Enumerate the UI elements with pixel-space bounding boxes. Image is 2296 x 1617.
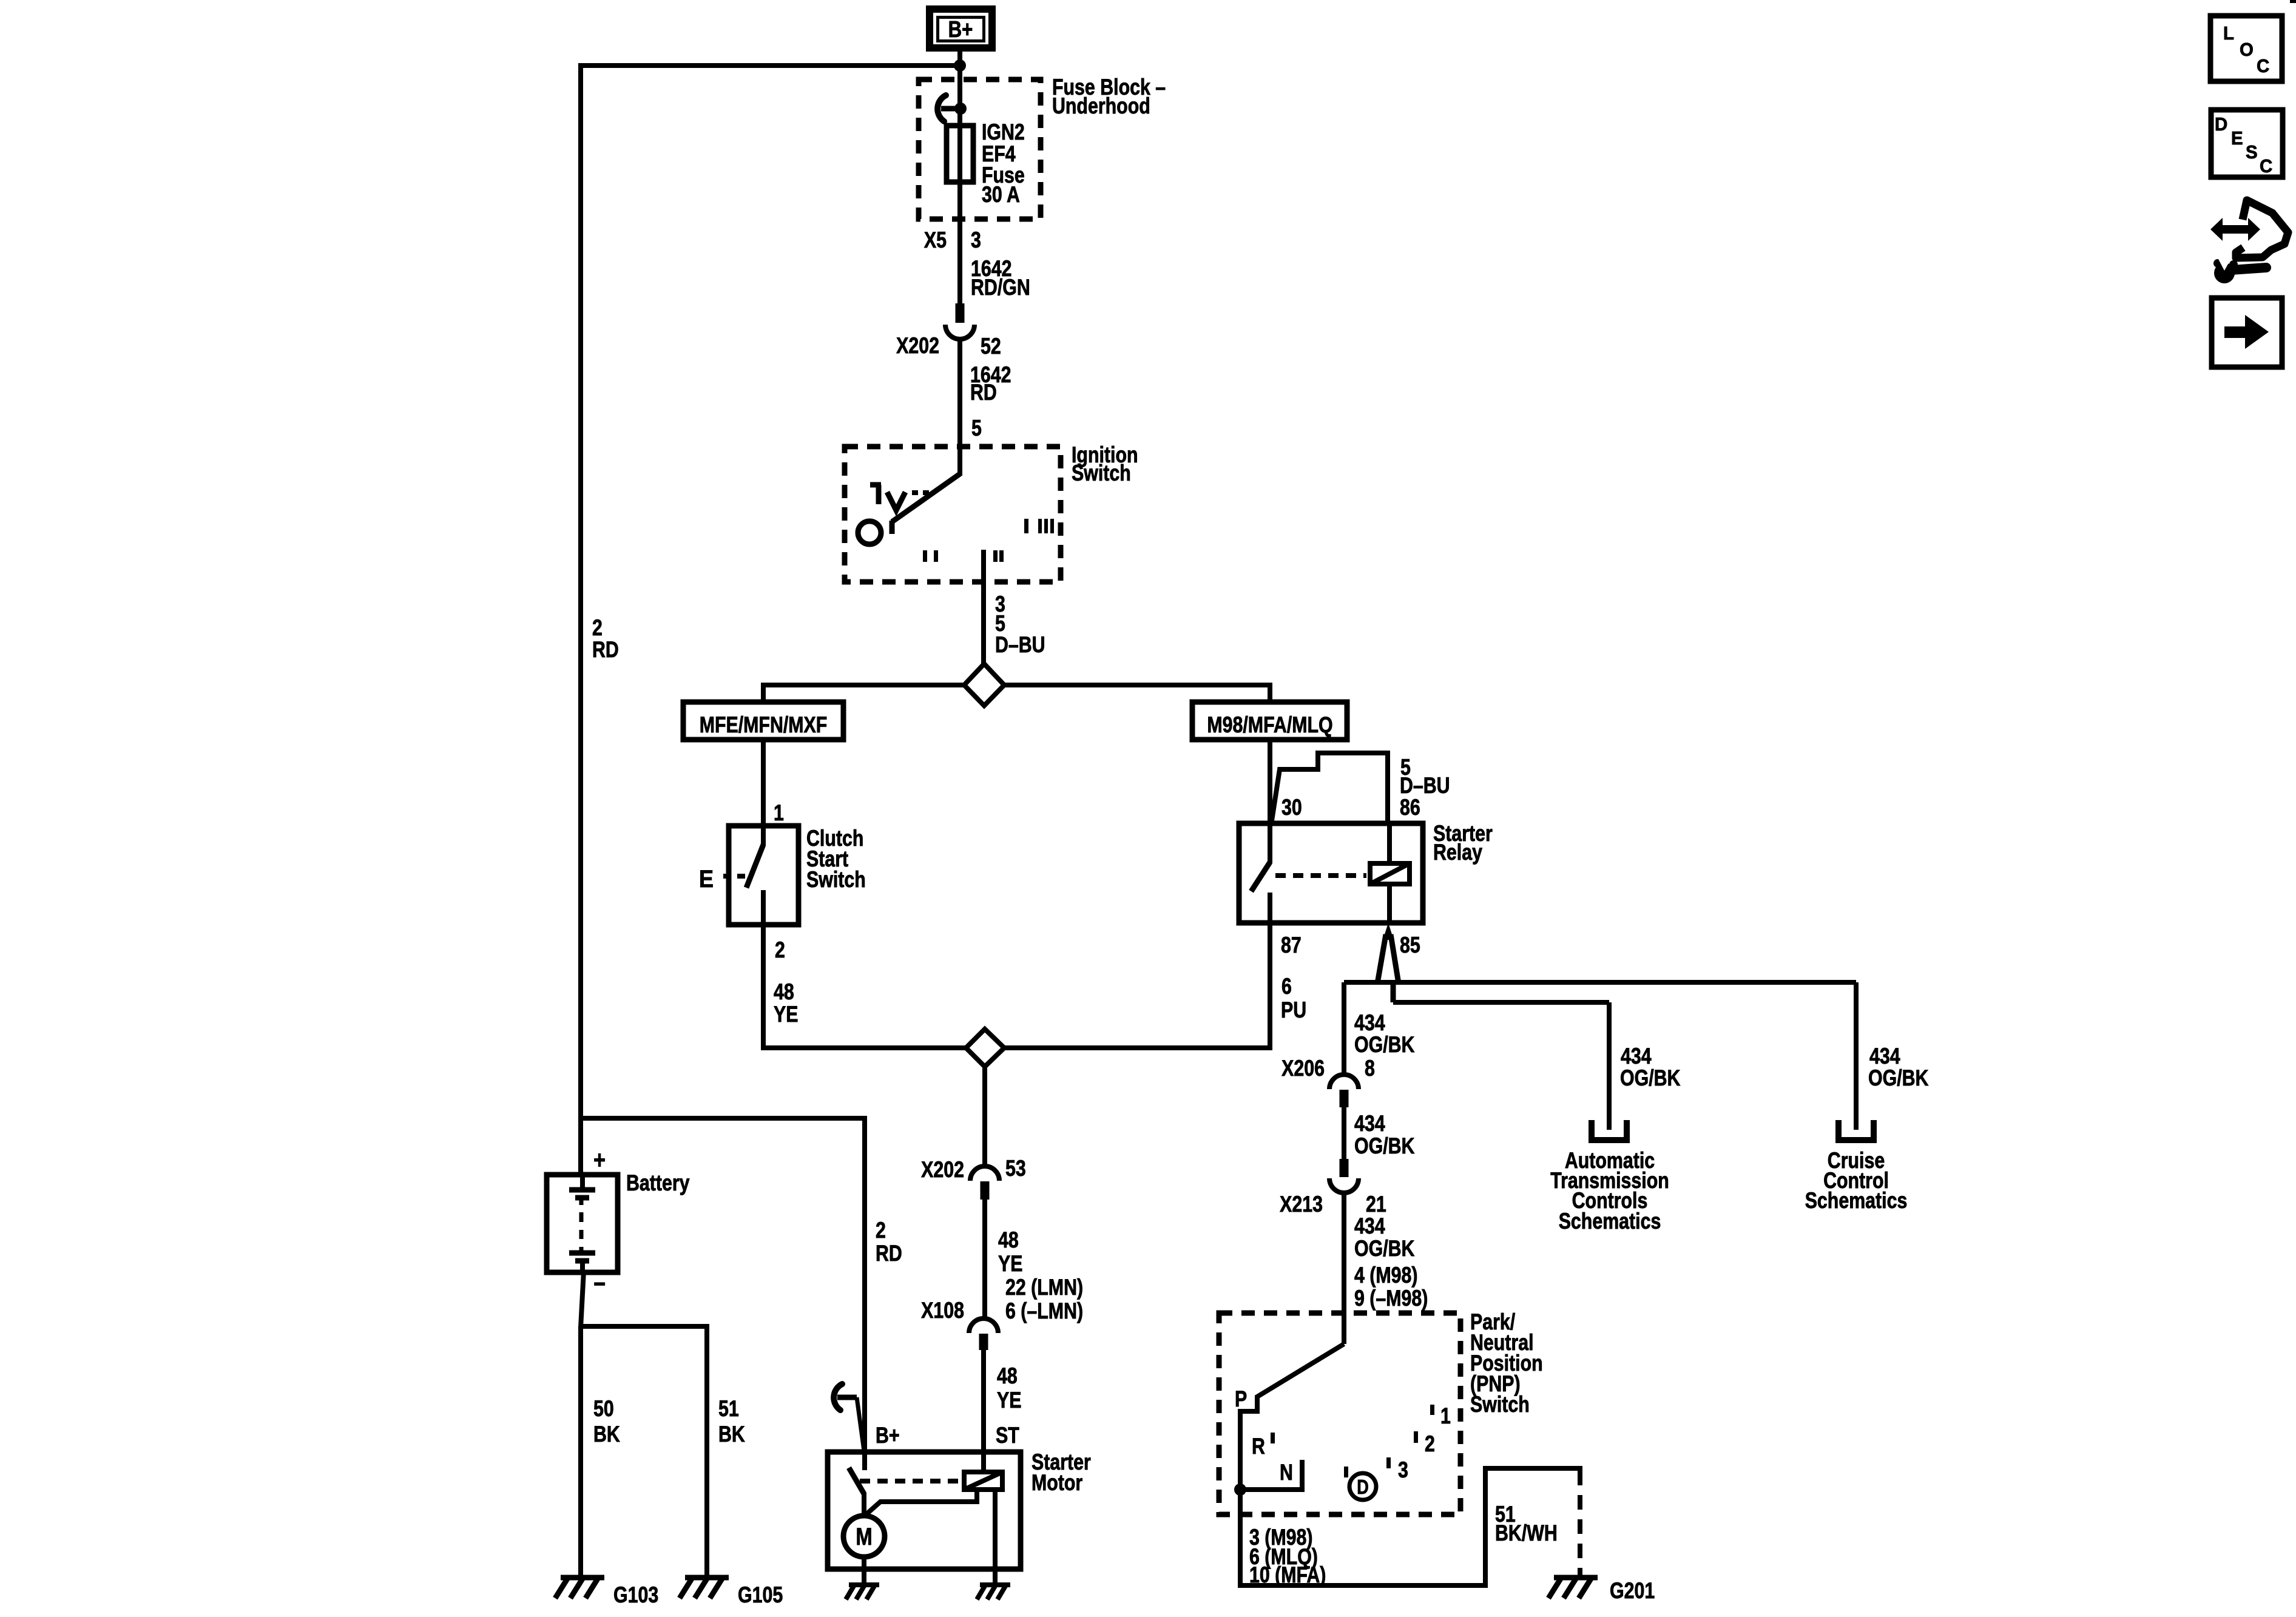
svg-text:M98/MFA/MLQ: M98/MFA/MLQ xyxy=(1207,712,1332,738)
starter solenoid dashed link xyxy=(860,1479,962,1484)
svg-text:9 (–M98): 9 (–M98) xyxy=(1354,1286,1428,1311)
svg-text:BK: BK xyxy=(593,1422,620,1447)
svg-text:4 (M98): 4 (M98) xyxy=(1354,1263,1418,1288)
svg-text:+: + xyxy=(593,1146,606,1175)
label clutch start switch xyxy=(806,826,866,893)
label splice X108 pins xyxy=(1005,1275,1083,1324)
label park neutral position switch xyxy=(1470,1309,1543,1417)
svg-text:S: S xyxy=(2246,142,2258,163)
wire 2 RD battery to starter xyxy=(581,1118,865,1468)
label battery minus xyxy=(593,1270,606,1298)
svg-text:B+: B+ xyxy=(948,17,973,42)
label relay pins 87 85 xyxy=(1281,933,1420,958)
label wire 50 BK xyxy=(593,1396,620,1447)
svg-text:YE: YE xyxy=(774,1002,798,1027)
svg-text:48: 48 xyxy=(774,979,794,1005)
ignition switch position mark II xyxy=(993,550,1004,562)
svg-text:1: 1 xyxy=(1440,1403,1451,1429)
svg-text:48: 48 xyxy=(997,1363,1018,1389)
connector X206 female dome xyxy=(1329,1075,1359,1089)
battery internal plates xyxy=(569,1177,595,1271)
ground G103 xyxy=(555,1578,658,1608)
wire PNP output to G201 xyxy=(1240,1468,1582,1585)
PNP wiper wire xyxy=(1240,1344,1344,1490)
label wire 3 5 D-BU xyxy=(995,592,1045,658)
connector X213 male pin xyxy=(1340,1159,1349,1177)
wire 434 OG/BK down to X206 xyxy=(1342,982,1346,1076)
svg-text:Underhood: Underhood xyxy=(1052,93,1150,119)
svg-text:G105: G105 xyxy=(738,1582,783,1608)
wire diamond to M98 box xyxy=(1004,685,1270,702)
label connector X213 pin 21 xyxy=(1280,1192,1386,1217)
terminal cruise schematics xyxy=(1838,1120,1874,1140)
svg-text:50: 50 xyxy=(593,1396,614,1422)
label connector X206 pin 8 xyxy=(1281,1056,1375,1081)
svg-text:2: 2 xyxy=(775,937,785,963)
svg-text:1: 1 xyxy=(774,800,784,826)
svg-text:E: E xyxy=(2231,128,2243,149)
svg-text:M: M xyxy=(856,1523,872,1550)
label wire 48 YE clutch xyxy=(774,979,798,1027)
ignition switch lever xyxy=(892,474,960,534)
connector X108 male pin xyxy=(979,1334,988,1350)
wire 434 OG/BK between connectors xyxy=(1342,1107,1346,1160)
svg-text:48: 48 xyxy=(998,1227,1019,1253)
icon wrench xyxy=(2213,259,2266,283)
label wire 1642 RD/GN xyxy=(971,256,1030,300)
label wire 434 OG/BK AT xyxy=(1620,1044,1681,1091)
wire M98 to relay pin 30 xyxy=(1268,740,1272,826)
svg-text:C: C xyxy=(2257,56,2269,76)
svg-text:30 A: 30 A xyxy=(982,182,1020,208)
svg-text:22 (LMN): 22 (LMN) xyxy=(1005,1275,1083,1300)
svg-text:P: P xyxy=(1235,1386,1247,1412)
svg-text:2: 2 xyxy=(876,1218,886,1243)
svg-text:X206: X206 xyxy=(1281,1056,1325,1081)
svg-text:RD: RD xyxy=(592,637,619,663)
starter solenoid coil xyxy=(964,1472,1002,1490)
svg-text:2: 2 xyxy=(1425,1431,1435,1457)
svg-text:OG/BK: OG/BK xyxy=(1868,1065,1929,1091)
svg-text:D: D xyxy=(1357,1477,1369,1499)
label wire 434 OG/BK upper xyxy=(1354,1010,1415,1058)
svg-text:R: R xyxy=(1252,1434,1265,1459)
label starter relay xyxy=(1433,821,1493,865)
wire 434 OG/BK to AT schematics xyxy=(1607,1002,1612,1130)
power terminal B+ box xyxy=(930,9,992,48)
connector X202 pin 53 male pin xyxy=(981,1181,990,1200)
svg-text:8: 8 xyxy=(1365,1056,1375,1081)
wire 2 RD left vertical xyxy=(581,63,584,1177)
wire 1642 RD to ignition switch xyxy=(957,338,962,476)
icon LOC box xyxy=(2210,16,2282,81)
wire 434 OG/BK to cruise schematics xyxy=(1854,982,1859,1130)
label clutch pin 2 xyxy=(775,937,785,963)
svg-text:O: O xyxy=(2240,39,2254,60)
connector X202 pin 52 female cup xyxy=(945,325,974,339)
wire 48 YE to starter ST xyxy=(981,1350,986,1473)
label wire 2 RD left xyxy=(592,615,619,663)
svg-text:87: 87 xyxy=(1281,933,1302,958)
svg-text:D: D xyxy=(2215,114,2227,135)
label PNP output pins xyxy=(1249,1525,1326,1588)
svg-text:MFE/MFN/MXF: MFE/MFN/MXF xyxy=(700,712,828,738)
starter relay switch blade xyxy=(1251,823,1270,923)
wire ignition output xyxy=(981,550,986,665)
svg-text:N: N xyxy=(1280,1460,1293,1485)
svg-text:D–BU: D–BU xyxy=(995,632,1045,658)
svg-text:PU: PU xyxy=(1281,998,1306,1023)
label relay pin 30 xyxy=(1281,795,1302,820)
option box MFE/MFN/MXF xyxy=(683,702,843,740)
svg-text:RD: RD xyxy=(876,1241,902,1266)
svg-text:30: 30 xyxy=(1281,795,1302,820)
svg-text:X108: X108 xyxy=(921,1298,964,1323)
label relay pin 87 wire 6 PU xyxy=(1281,974,1306,1023)
wire starter solenoid to ground xyxy=(993,1490,998,1586)
ground G105 xyxy=(680,1578,783,1608)
label wire 5 D-BU relay xyxy=(1400,755,1450,798)
svg-text:E: E xyxy=(699,866,714,893)
connector X202 pin 53 female dome xyxy=(970,1166,999,1181)
label wire 48 YE lower xyxy=(997,1363,1021,1413)
svg-text:434: 434 xyxy=(1354,1214,1385,1239)
label fuse block name xyxy=(1052,75,1166,119)
svg-text:YE: YE xyxy=(997,1388,1021,1413)
svg-text:434: 434 xyxy=(1354,1111,1385,1136)
starter motor M circle xyxy=(843,1516,885,1557)
svg-text:X5: X5 xyxy=(924,228,947,253)
icon adjust hand xyxy=(2210,200,2288,258)
label wire 2 RD starter xyxy=(876,1218,902,1266)
label wire 434 OG/BK middle xyxy=(1354,1111,1415,1159)
svg-text:L: L xyxy=(2223,23,2234,44)
svg-text:RD: RD xyxy=(970,380,997,405)
starter solenoid coil to motor xyxy=(865,1490,977,1516)
label battery plus xyxy=(593,1146,606,1175)
svg-text:X202: X202 xyxy=(896,333,939,359)
label wire 1642 RD xyxy=(970,362,1011,405)
svg-text:G201: G201 xyxy=(1610,1578,1655,1604)
label connector X5 pin 3 xyxy=(924,228,981,253)
svg-text:6: 6 xyxy=(1281,974,1292,999)
svg-text:RD/GN: RD/GN xyxy=(971,275,1030,300)
PNP contact mark 1 xyxy=(1430,1403,1451,1429)
svg-text:3: 3 xyxy=(971,228,981,253)
clutch start switch blade xyxy=(746,826,763,925)
label wire 434 OG/BK lower xyxy=(1354,1214,1415,1261)
svg-text:Battery: Battery xyxy=(626,1170,690,1196)
starter relay dashed link xyxy=(1275,873,1366,878)
svg-text:BK/WH: BK/WH xyxy=(1495,1521,1558,1546)
node PNP common junction xyxy=(1234,1484,1246,1496)
terminal AT schematics xyxy=(1592,1120,1627,1140)
svg-text:OG/BK: OG/BK xyxy=(1354,1032,1415,1058)
page corner mark xyxy=(2290,0,2296,3)
wire 48 YE clutch to diamond xyxy=(763,925,968,1048)
fuse block bus hook xyxy=(937,95,961,121)
label ignition switch xyxy=(1072,442,1138,486)
wire 434 OG/BK horizontal to AT xyxy=(1393,1000,1609,1005)
label battery xyxy=(626,1170,690,1196)
clutch switch actuator E xyxy=(699,866,745,893)
wire B+ to fuse block xyxy=(957,52,962,305)
wire 5 D-BU to relay pin 86 xyxy=(1271,753,1388,826)
label PNP contact P xyxy=(1235,1386,1247,1412)
svg-text:Schematics: Schematics xyxy=(1559,1209,1661,1234)
svg-text:51: 51 xyxy=(718,1396,739,1422)
label relay pin 86 xyxy=(1400,795,1420,820)
wire PNP N contact xyxy=(1240,1460,1302,1490)
wire 434 OG/BK horizontal to cruise xyxy=(1344,980,1856,985)
ground starter motor xyxy=(846,1585,879,1599)
svg-text:BK: BK xyxy=(718,1422,745,1447)
PNP contact mark 2 xyxy=(1414,1431,1435,1457)
ignition switch position mark I I xyxy=(923,550,938,562)
wire 434 OG/BK to PNP switch xyxy=(1342,1193,1346,1344)
splice diamond upper xyxy=(964,664,1004,706)
label PNP contact R xyxy=(1252,1433,1275,1459)
label wire 434 OG/BK cruise xyxy=(1868,1044,1929,1091)
option box M98/MFA/MLQ xyxy=(1192,702,1347,740)
svg-text:X202: X202 xyxy=(921,1157,964,1183)
starter relay box xyxy=(1239,823,1423,923)
label PNP contact N xyxy=(1280,1460,1293,1485)
svg-text:53: 53 xyxy=(1005,1156,1026,1181)
connector X206 male pin xyxy=(1340,1090,1349,1107)
svg-text:OG/BK: OG/BK xyxy=(1354,1133,1415,1159)
ignition switch position mark III xyxy=(1024,519,1054,533)
fuse IGN2 EF4 30A xyxy=(947,126,973,182)
svg-text:Switch: Switch xyxy=(1072,461,1131,486)
svg-text:Schematics: Schematics xyxy=(1805,1188,1908,1214)
wire branch to G105 xyxy=(581,1326,707,1580)
label cruise control schematics xyxy=(1805,1148,1908,1214)
svg-text:Switch: Switch xyxy=(806,867,866,893)
icon arrow box xyxy=(2212,298,2282,367)
svg-text:Motor: Motor xyxy=(1032,1470,1082,1496)
svg-text:5: 5 xyxy=(971,416,982,441)
connector X108 female dome xyxy=(969,1318,998,1333)
label connector X202 52 xyxy=(896,333,1001,359)
svg-text:10 (MFA): 10 (MFA) xyxy=(1249,1562,1326,1588)
wire MFE to clutch switch pin 1 xyxy=(761,740,766,826)
svg-text:ST: ST xyxy=(996,1423,1019,1448)
node junction inside fuse block xyxy=(954,103,967,115)
label starter motor xyxy=(1032,1450,1091,1496)
label connector X202 53 xyxy=(921,1156,1026,1183)
svg-text:C: C xyxy=(2260,156,2272,177)
label fuse values xyxy=(982,120,1025,208)
wire top horizontal B+ to battery branch xyxy=(578,63,960,68)
starter solenoid blade xyxy=(849,1452,865,1517)
svg-text:86: 86 xyxy=(1400,795,1420,820)
svg-text:Switch: Switch xyxy=(1470,1392,1530,1417)
svg-text:6 (–LMN): 6 (–LMN) xyxy=(1005,1298,1083,1324)
connector X202 pin 52 male pin xyxy=(956,303,965,323)
svg-text:52: 52 xyxy=(981,334,1001,359)
wire 48 YE to X108 xyxy=(982,1200,987,1318)
ignition switch dashed box xyxy=(845,447,1061,582)
svg-text:G103: G103 xyxy=(613,1582,658,1608)
label automatic transmission schematics xyxy=(1550,1148,1669,1234)
ignition switch start contact circle xyxy=(858,521,881,544)
clutch start switch box xyxy=(729,826,799,925)
wire relay 87 to diamond xyxy=(1004,923,1270,1048)
ignition switch accessory contact xyxy=(870,485,929,510)
wire diamond to MFE box xyxy=(763,685,964,702)
battery box xyxy=(547,1175,618,1272)
park neutral position switch dashed box xyxy=(1219,1313,1460,1514)
starter motor box xyxy=(828,1452,1021,1569)
svg-text:3: 3 xyxy=(1398,1457,1408,1483)
label wire 48 YE upper xyxy=(998,1227,1022,1277)
svg-text:OG/BK: OG/BK xyxy=(1354,1236,1415,1261)
label wire 51 BK xyxy=(718,1396,745,1447)
PNP contact mark 3 xyxy=(1386,1457,1408,1483)
svg-text:YE: YE xyxy=(998,1251,1022,1277)
svg-text:−: − xyxy=(593,1270,606,1298)
node junction at B+ wire xyxy=(954,59,966,72)
PNP contact mark D xyxy=(1344,1467,1376,1500)
starter motor bus hook xyxy=(834,1384,864,1451)
wire 51 BK/WH dashed xyxy=(1578,1471,1582,1578)
starter relay coil xyxy=(1370,823,1410,923)
svg-text:OG/BK: OG/BK xyxy=(1620,1065,1681,1091)
svg-text:B+: B+ xyxy=(876,1423,900,1448)
label ignition pin 5 xyxy=(971,416,982,441)
label connector X108 xyxy=(921,1298,964,1323)
ground G201 xyxy=(1548,1578,1655,1604)
label clutch pin 1 xyxy=(774,800,784,826)
label starter terminals B+ ST xyxy=(876,1423,1019,1448)
wire diamond down to X202-53 xyxy=(982,1067,987,1167)
wire starter motor to ground xyxy=(862,1557,866,1586)
svg-text:X213: X213 xyxy=(1280,1192,1323,1217)
ground starter solenoid xyxy=(977,1585,1010,1599)
splice diamond lower xyxy=(966,1029,1004,1067)
label PNP pins 4 9 xyxy=(1354,1263,1428,1311)
wire battery negative xyxy=(581,1271,584,1580)
fuse block dashed box xyxy=(919,79,1041,219)
svg-text:85: 85 xyxy=(1400,933,1420,958)
connector X213 female cup xyxy=(1329,1178,1359,1193)
svg-text:Relay: Relay xyxy=(1433,840,1482,865)
label wire 51 BK/WH xyxy=(1495,1502,1558,1546)
relay pin 85 arrow xyxy=(1377,923,1399,1002)
icon DESC box xyxy=(2211,110,2283,177)
